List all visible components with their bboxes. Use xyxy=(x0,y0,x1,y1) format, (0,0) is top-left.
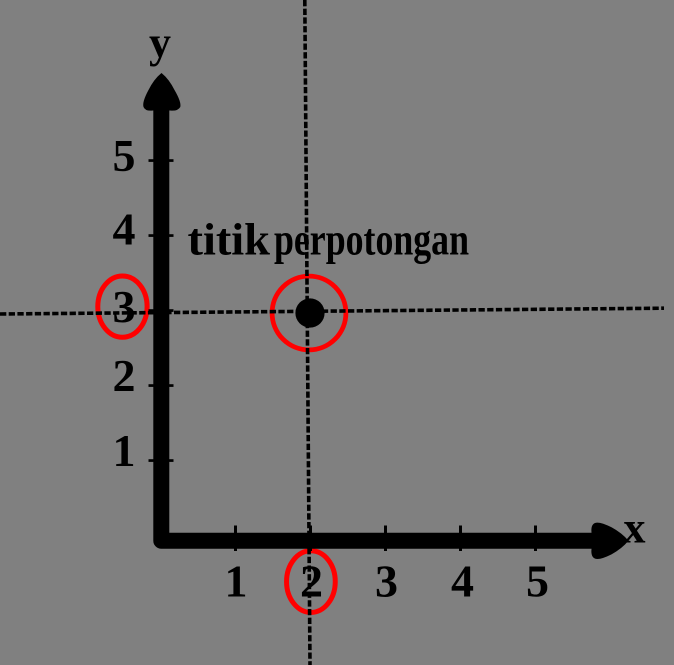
svg-text:2: 2 xyxy=(300,556,323,607)
svg-text:3: 3 xyxy=(375,556,398,607)
svg-text:5: 5 xyxy=(526,556,549,607)
svg-text:3: 3 xyxy=(113,281,136,332)
red circle highlight around point (2,3) xyxy=(272,276,346,350)
red ellipse around x-label 2 xyxy=(287,551,336,613)
svg-text:titik: titik xyxy=(188,215,271,265)
x-axis tick x=4 xyxy=(459,526,462,552)
y-axis tick y=3 xyxy=(149,309,174,312)
svg-text:2: 2 xyxy=(113,350,136,401)
svg-text:x: x xyxy=(624,504,646,553)
x-axis tick x=2 xyxy=(309,526,312,552)
x-axis tick x=5 xyxy=(534,526,537,552)
x-axis arrowhead xyxy=(591,523,628,559)
dashed horizontal line y=3 xyxy=(0,308,664,314)
y-axis tick y=2 xyxy=(149,384,174,387)
svg-text:1: 1 xyxy=(225,556,248,607)
axes: y-axis shaft and x-axis shaft with rounded corner xyxy=(161,98,597,541)
x-axis tick x=3 xyxy=(384,526,387,552)
svg-text:5: 5 xyxy=(113,130,136,181)
y-axis tick y=4 xyxy=(149,234,174,237)
svg-text:1: 1 xyxy=(113,425,136,476)
red ellipse around y-label 3 xyxy=(98,276,147,337)
x-axis tick x=1 xyxy=(234,526,237,552)
svg-text:perpotongan: perpotongan xyxy=(274,215,469,265)
y-axis tick y=5 xyxy=(149,159,174,162)
y-axis arrowhead xyxy=(143,73,180,111)
y-axis tick y=1 xyxy=(149,459,174,462)
svg-text:4: 4 xyxy=(451,556,474,607)
dashed vertical line x=2 xyxy=(305,0,310,665)
svg-text:4: 4 xyxy=(113,204,136,255)
svg-text:y: y xyxy=(149,18,171,67)
point (2,3) dot xyxy=(295,298,324,327)
